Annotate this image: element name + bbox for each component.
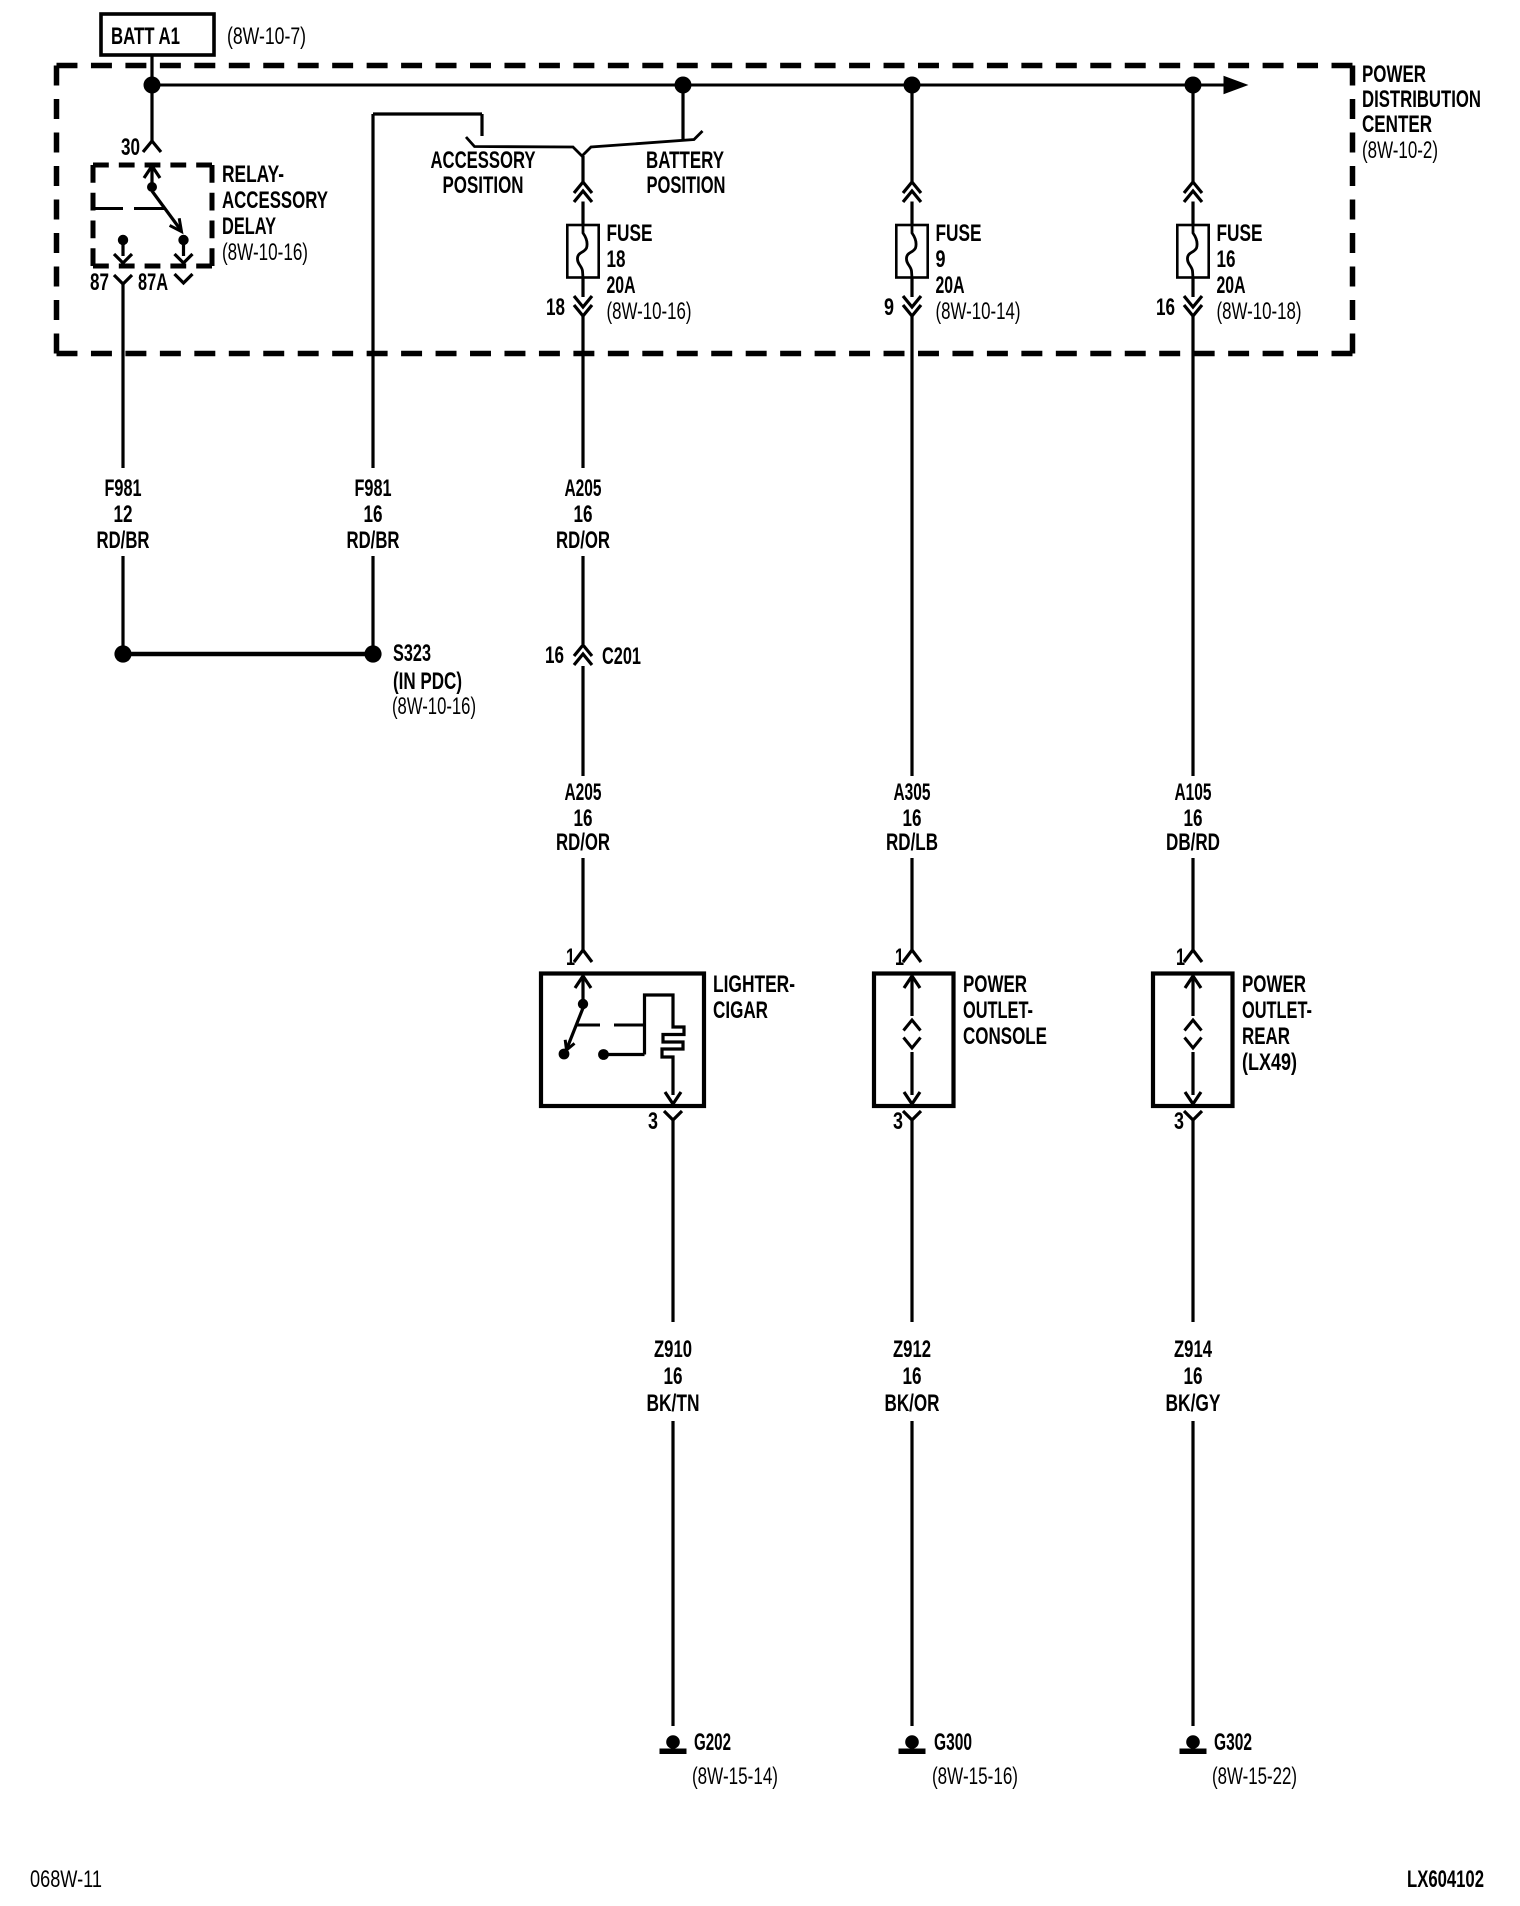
svg-text:(LX49): (LX49) (1242, 1049, 1297, 1076)
svg-text:(8W-10-16): (8W-10-16) (607, 298, 692, 325)
wire label F981 16 RD/BR (347, 475, 400, 554)
svg-text:20A: 20A (1217, 272, 1246, 299)
pin 3 rear outlet (1174, 1108, 1202, 1135)
wire A305 to console pin 1 (910, 858, 913, 950)
wire F981 16 down to splice (371, 556, 374, 654)
svg-text:16: 16 (1184, 805, 1203, 832)
svg-text:RD/BR: RD/BR (97, 527, 150, 554)
pin 87A (138, 269, 193, 296)
svg-text:(8W-10-16): (8W-10-16) (222, 239, 308, 266)
svg-text:Z912: Z912 (893, 1336, 931, 1363)
wire F981 16 top run (373, 114, 482, 468)
svg-text:(8W-10-14): (8W-10-14) (936, 298, 1021, 325)
svg-text:RD/LB: RD/LB (886, 829, 938, 856)
fuse 9 20A (884, 182, 1021, 325)
wire label Z910 16 BK/TN (647, 1336, 700, 1417)
svg-text:20A: 20A (936, 272, 965, 299)
wire junction to fuse 9 (910, 85, 913, 182)
wire fuse 18 to label A205 (581, 316, 584, 468)
svg-text:18: 18 (607, 246, 626, 273)
wire bracket to fuse 18 (581, 156, 584, 182)
fuse 16 20A (1156, 182, 1302, 325)
svg-text:20A: 20A (607, 272, 636, 299)
svg-text:BATT A1: BATT A1 (111, 23, 180, 50)
wire label Z914 16 BK/GY (1166, 1336, 1221, 1417)
svg-text:BK/GY: BK/GY (1166, 1390, 1221, 1417)
svg-text:A205: A205 (565, 475, 602, 502)
wire label F981 12 RD/BR (97, 475, 150, 554)
svg-text:C201: C201 (602, 643, 641, 670)
svg-text:POWER: POWER (963, 971, 1027, 998)
pin 87 (90, 269, 132, 296)
relay movable contact arm (152, 191, 182, 232)
label LIGHTER-CIGAR (713, 971, 795, 1024)
wire fuse 16 to label A105 (1191, 316, 1194, 776)
wire rear pin 3 down (upper) (1191, 1126, 1194, 1322)
svg-text:Z914: Z914 (1174, 1336, 1212, 1363)
svg-text:9: 9 (884, 294, 894, 321)
svg-text:(8W-10-2): (8W-10-2) (1362, 137, 1438, 164)
svg-text:(8W-15-16): (8W-15-16) (932, 1763, 1018, 1790)
lighter pin 1 internal arrow (575, 976, 591, 1001)
svg-text:BK/OR: BK/OR (885, 1390, 940, 1417)
label POWER OUTLET-REAR (LX49) (1242, 971, 1312, 1076)
svg-text:POSITION: POSITION (647, 172, 726, 199)
bus wire from BATT A1 (152, 84, 1228, 87)
svg-text:F981: F981 (105, 475, 142, 502)
svg-text:RD/OR: RD/OR (556, 829, 610, 856)
svg-text:3: 3 (893, 1108, 903, 1135)
svg-text:A305: A305 (894, 779, 931, 806)
junction at battery position feed (675, 77, 692, 94)
svg-text:LIGHTER-: LIGHTER- (713, 971, 795, 998)
svg-text:F981: F981 (355, 475, 392, 502)
svg-text:OUTLET-: OUTLET- (963, 997, 1033, 1024)
svg-text:(8W-15-22): (8W-15-22) (1212, 1763, 1297, 1790)
wire junction to fuse 16 (1191, 85, 1194, 182)
lighter element contact dot (598, 1049, 644, 1060)
splice S323 (114, 645, 381, 662)
svg-text:(8W-15-14): (8W-15-14) (692, 1763, 778, 1790)
svg-text:16: 16 (574, 805, 593, 832)
svg-text:3: 3 (648, 1108, 658, 1135)
lighter switch arm (565, 1008, 583, 1050)
svg-text:A205: A205 (565, 779, 602, 806)
component LIGHTER-CIGAR box (541, 974, 704, 1107)
svg-text:FUSE: FUSE (607, 220, 653, 247)
wire relay 87 down to splice (upper) (121, 284, 124, 468)
label accessory position (431, 147, 536, 199)
svg-text:RD/BR: RD/BR (347, 527, 400, 554)
svg-text:A105: A105 (1175, 779, 1212, 806)
svg-text:CONSOLE: CONSOLE (963, 1023, 1047, 1050)
svg-text:OUTLET-: OUTLET- (1242, 997, 1312, 1024)
svg-text:1: 1 (895, 944, 904, 971)
wire lighter pin 3 down (upper) (671, 1126, 674, 1322)
lighter heating element (645, 995, 685, 1095)
wire fuse 9 to label A305 (910, 316, 913, 776)
relay RELAY-ACCESSORY DELAY box (93, 165, 212, 266)
rear outlet internal circuit (1185, 976, 1202, 1104)
svg-text:BATTERY: BATTERY (646, 147, 724, 174)
svg-text:1: 1 (566, 944, 575, 971)
svg-text:G302: G302 (1214, 1729, 1252, 1756)
relay contact 87A terminal (175, 235, 193, 263)
wire A205 to C201 (581, 556, 584, 644)
svg-text:ACCESSORY: ACCESSORY (222, 187, 328, 214)
component POWER OUTLET-CONSOLE box (874, 974, 954, 1107)
pin 3 console (893, 1108, 921, 1135)
wire battery position drop (681, 85, 684, 139)
svg-text:POSITION: POSITION (443, 172, 524, 199)
svg-text:(8W-10-16): (8W-10-16) (392, 693, 476, 720)
svg-text:16: 16 (903, 805, 922, 832)
svg-text:DB/RD: DB/RD (1166, 829, 1220, 856)
fuse 18 20A (546, 182, 692, 325)
sheet number 068W-11 (30, 1866, 102, 1893)
svg-text:3: 3 (1174, 1108, 1184, 1135)
wire console pin 3 down (upper) (910, 1126, 913, 1322)
svg-text:16: 16 (574, 501, 593, 528)
relay common contact arrow (pin 30) (144, 166, 160, 192)
ground G202 (660, 1735, 687, 1754)
ground G302 label (1212, 1729, 1297, 1790)
component POWER OUTLET-REAR box (1153, 974, 1233, 1107)
svg-text:DELAY: DELAY (222, 213, 276, 240)
connector BATT A1 (101, 14, 306, 55)
wire label A205 16 RD/OR (upper) (556, 475, 610, 554)
svg-text:(8W-10-18): (8W-10-18) (1217, 298, 1302, 325)
svg-text:POWER: POWER (1362, 61, 1426, 88)
svg-text:G202: G202 (694, 1729, 731, 1756)
power distribution center label (1362, 61, 1481, 164)
svg-text:30: 30 (121, 134, 140, 161)
accessory/battery position bracket (466, 131, 703, 156)
svg-text:16: 16 (1184, 1363, 1203, 1390)
wire BATT A1 to relay pin 30 (150, 55, 153, 141)
ground G300 (899, 1735, 926, 1754)
svg-text:1: 1 (1176, 944, 1185, 971)
svg-text:RD/OR: RD/OR (556, 527, 610, 554)
relay label (222, 161, 328, 266)
wire relay 87 down to splice (lower) (121, 556, 124, 654)
wire A205 to lighter pin 1 (581, 858, 584, 950)
wire label A105 16 DB/RD (1166, 779, 1220, 856)
svg-text:87: 87 (90, 269, 109, 296)
svg-text:(8W-10-7): (8W-10-7) (227, 23, 306, 50)
pin 3 lighter (648, 1108, 682, 1135)
svg-text:LX604102: LX604102 (1407, 1866, 1484, 1893)
splice S323 label (392, 640, 476, 720)
svg-text:12: 12 (114, 501, 133, 528)
svg-text:G300: G300 (934, 1729, 972, 1756)
power distribution center box (57, 66, 1353, 354)
svg-text:18: 18 (546, 294, 565, 321)
label battery position (646, 147, 726, 199)
wire label A205 16 RD/OR (lower) (556, 779, 610, 856)
lighter pin 3 internal arrow (665, 1092, 681, 1104)
relay coil dashed link (93, 207, 164, 210)
pin 1 lighter (566, 944, 592, 971)
lighter mechanical dashed link (577, 1024, 643, 1027)
svg-text:(IN PDC): (IN PDC) (393, 668, 462, 695)
label POWER OUTLET-CONSOLE (963, 971, 1047, 1050)
svg-text:ACCESSORY: ACCESSORY (431, 147, 536, 174)
svg-text:CENTER: CENTER (1362, 111, 1432, 138)
svg-text:REAR: REAR (1242, 1023, 1290, 1050)
svg-text:87A: 87A (138, 269, 168, 296)
wire Z910 to ground (lower) (671, 1421, 674, 1726)
svg-text:RELAY-: RELAY- (222, 161, 284, 188)
bus arrowhead (1224, 77, 1247, 94)
svg-text:DISTRIBUTION: DISTRIBUTION (1362, 86, 1481, 113)
svg-text:Z910: Z910 (654, 1336, 692, 1363)
wire Z914 to ground (lower) (1191, 1421, 1194, 1726)
svg-text:CIGAR: CIGAR (713, 997, 768, 1024)
wire C201 to label A205 (lower) (581, 666, 584, 776)
drawing number LX604102 (1407, 1866, 1484, 1893)
lighter switch contact pole (559, 1049, 570, 1060)
wire Z912 to ground (lower) (910, 1421, 913, 1726)
junction at fuse 16 feed (1185, 77, 1202, 94)
svg-text:068W-11: 068W-11 (30, 1866, 102, 1893)
svg-text:16: 16 (903, 1363, 922, 1390)
svg-text:FUSE: FUSE (1217, 220, 1263, 247)
svg-text:POWER: POWER (1242, 971, 1306, 998)
junction at fuse 9 feed (904, 77, 921, 94)
pin 1 console (895, 944, 921, 971)
svg-text:9: 9 (936, 246, 946, 273)
svg-text:16: 16 (664, 1363, 683, 1390)
ground G202 label (692, 1729, 778, 1790)
wire label Z912 16 BK/OR (885, 1336, 940, 1417)
svg-text:16: 16 (1217, 246, 1236, 273)
wire label A305 16 RD/LB (886, 779, 938, 856)
svg-text:16: 16 (1156, 294, 1175, 321)
pin 1 rear outlet (1176, 944, 1202, 971)
lighter switch pivot (578, 999, 588, 1009)
svg-text:16: 16 (545, 642, 564, 669)
svg-text:S323: S323 (393, 640, 431, 667)
ground G302 (1180, 1735, 1207, 1754)
svg-text:FUSE: FUSE (936, 220, 982, 247)
wire A105 to rear outlet pin 1 (1191, 858, 1194, 950)
connector C201 (545, 642, 641, 670)
svg-text:BK/TN: BK/TN (647, 1390, 700, 1417)
console internal circuit (904, 976, 921, 1104)
relay contact 87 terminal (114, 235, 132, 263)
junction at relay feed (144, 77, 161, 94)
ground G300 label (932, 1729, 1018, 1790)
pin 30 (121, 134, 161, 161)
svg-text:16: 16 (364, 501, 383, 528)
